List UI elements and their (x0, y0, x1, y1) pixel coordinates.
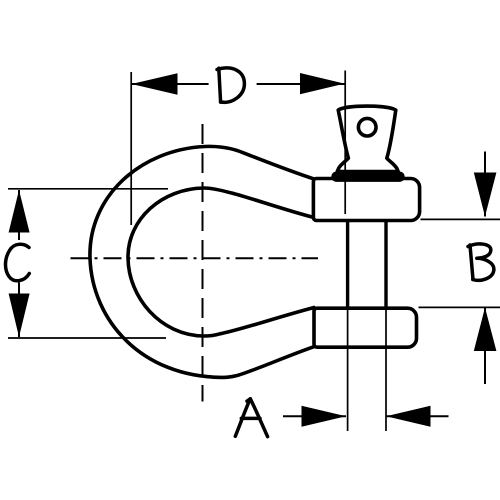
dimension line A left segment (283, 415, 346, 417)
arrowhead D left (132, 73, 178, 94)
dimension line D right segment (257, 83, 345, 85)
pin shank visible in jaw gap (right line) (384, 221, 387, 309)
dimension line B top segment (484, 152, 486, 217)
horizontal center line (dash-dot) (71, 257, 319, 259)
label C (5, 244, 29, 281)
dimension line B bottom segment (484, 308, 486, 385)
shackle bottom clevis ear (rounded rect) (314, 308, 417, 347)
vertical center line (dashed) (202, 124, 204, 402)
arrowhead B up (474, 308, 497, 352)
dimension line C top segment (18, 190, 20, 240)
dimension line A right segment (386, 415, 449, 417)
arrowhead B down (474, 173, 497, 217)
dimension line D left segment (132, 83, 209, 85)
extension line B bottom (419, 306, 500, 308)
pin collar (black washer) (332, 172, 404, 181)
extension line C bottom (8, 337, 166, 339)
pin head hole (358, 118, 376, 136)
extension line A left (347, 310, 349, 431)
extension line D right (344, 71, 346, 215)
extension line A right (385, 310, 387, 431)
shackle bow outer outline (90, 146, 314, 377)
extension line C top (8, 188, 168, 190)
arrowhead A pointing right (302, 406, 347, 427)
arrowhead C up (9, 190, 30, 233)
screw pin head (337, 106, 398, 172)
shackle top clevis ear (rounded rect) (313, 179, 419, 221)
label D (217, 68, 244, 102)
extension line B top (421, 218, 500, 220)
pin shank visible in jaw gap (left line) (346, 221, 349, 309)
arrowhead D right (300, 73, 345, 94)
shackle bow inner outline (128, 188, 314, 336)
extension line D left (130, 72, 132, 225)
label B (468, 244, 494, 280)
arrowhead A pointing left (386, 406, 431, 427)
arrowhead C down (9, 294, 30, 338)
label A (235, 399, 267, 437)
dimension line C bottom segment (18, 283, 20, 338)
